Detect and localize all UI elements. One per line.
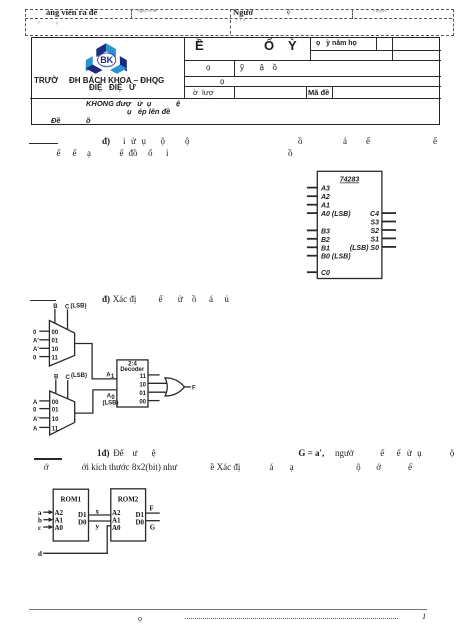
far right sub-row [310, 50, 441, 51]
wire mux M2 output to decoder A0 [75, 390, 117, 413]
svg-text:F: F [149, 505, 153, 513]
svg-text:B: B [53, 304, 58, 310]
ROM1 pin A2 input a [38, 509, 64, 517]
mux M2 input 0 -> 01 [33, 408, 59, 414]
decoder output 10 wire to OR [139, 382, 166, 388]
adder U1 74283 body [317, 171, 382, 278]
BK logo [84, 39, 131, 76]
decoder U2 2:4 body [117, 360, 148, 407]
ROM2 pin A0 [112, 524, 121, 532]
pin A2 [307, 194, 330, 201]
mux M2 select B [54, 375, 59, 394]
svg-text:C: C [66, 375, 71, 381]
svg-text:Decoder: Decoder [120, 367, 145, 373]
svg-text:A3: A3 [320, 186, 330, 193]
svg-text:(LSB): (LSB) [103, 401, 119, 407]
svg-text:A': A' [33, 347, 39, 353]
mux M2 input A' -> 10 [33, 417, 59, 423]
svg-text:10: 10 [139, 382, 146, 388]
row4 [193, 88, 214, 97]
wire output F [146, 505, 160, 514]
ROM1 pin A1 input b [38, 517, 64, 525]
svg-text:A': A' [33, 417, 39, 423]
svg-text:00: 00 [139, 400, 146, 406]
svg-text:x: x [96, 508, 100, 516]
pin A3 [307, 186, 330, 193]
row4 verticals [234, 86, 235, 98]
left cell text [34, 76, 58, 85]
mux M1 input A' -> 10 [33, 347, 59, 353]
svg-text:C0: C0 [321, 270, 330, 277]
ROM1 pin D1 [78, 511, 87, 519]
svg-text:B2: B2 [321, 237, 330, 244]
ROM1 pin A0 input c [38, 524, 64, 532]
KHONG row [86, 99, 151, 108]
mux M1 select C (LSB) [65, 304, 87, 330]
svg-text:10: 10 [52, 347, 59, 353]
pin C4 [370, 211, 396, 218]
mux M1 input 0 -> 00 [33, 330, 59, 336]
svg-text:D0: D0 [135, 519, 144, 527]
wire OR output [185, 386, 191, 388]
ROM2 pin A2 [112, 509, 121, 517]
rom ROM2 title [118, 495, 139, 503]
mux M1 input A' -> 01 [33, 339, 59, 345]
value label 74283 [340, 177, 360, 184]
mux M1 input 0 -> 11 [33, 356, 59, 362]
row2 [206, 63, 210, 72]
svg-text:G: G [150, 524, 156, 532]
svg-text:74283: 74283 [340, 177, 360, 184]
svg-text:A: A [33, 426, 38, 432]
svg-text:01: 01 [52, 408, 59, 414]
svg-text:01: 01 [139, 391, 146, 397]
svg-text:00: 00 [52, 330, 59, 336]
ROM2 pin D1 [135, 511, 144, 519]
mux M2 select C (LSB) [66, 373, 88, 399]
decoder output 01 wire to OR [139, 391, 166, 397]
svg-text:F: F [192, 386, 196, 392]
svg-text:A0 (LSB): A0 (LSB) [320, 211, 351, 218]
svg-text:S3: S3 [370, 220, 379, 227]
svg-text:A1: A1 [320, 203, 330, 210]
svg-text:y: y [96, 523, 100, 531]
wire x D1 to ROM2 A2 [89, 508, 111, 516]
mux M2 input A -> 11 [33, 426, 59, 432]
svg-text:(LSB): (LSB) [71, 373, 87, 379]
svg-text:D0: D0 [78, 519, 87, 527]
ROM2 pin A1 [112, 517, 121, 525]
vertical divider logo cell [184, 37, 185, 98]
svg-text:01: 01 [52, 339, 59, 345]
pin S3 [370, 220, 396, 227]
wire y D0 to ROM2 A1 [89, 521, 111, 531]
svg-text:c: c [38, 524, 41, 532]
pin S2 [370, 228, 396, 235]
pin B3 [307, 228, 330, 235]
pin A1 [307, 203, 330, 210]
svg-text:11: 11 [52, 426, 59, 432]
decoder output 11 [140, 374, 160, 380]
row3 [220, 77, 224, 86]
pin B0 (LSB) [307, 254, 351, 261]
pin C0 [307, 270, 330, 277]
decoder output 00 [139, 400, 159, 406]
ROM2 pin D0 [135, 519, 144, 527]
svg-text:A0: A0 [112, 524, 121, 532]
pin B1 [307, 245, 330, 252]
rom ROM1 title [60, 495, 81, 503]
ROM1 pin D0 [78, 519, 87, 527]
svg-text:A2: A2 [320, 194, 330, 201]
mux M2 (bottom 4:1) body [50, 391, 75, 435]
pin S0 (LSB) [350, 245, 396, 252]
svg-text:A': A' [33, 339, 39, 345]
svg-text:B0 (LSB): B0 (LSB) [321, 254, 351, 261]
row2 vertical [234, 60, 235, 76]
pin B2 [307, 237, 330, 244]
mux M1 select B [53, 304, 58, 323]
svg-text:B: B [54, 375, 59, 381]
or-gate G1 [165, 378, 185, 396]
right section row lines [184, 60, 442, 61]
svg-text:0: 0 [33, 408, 37, 414]
svg-text:A0: A0 [55, 524, 64, 532]
header title glyphs [195, 38, 204, 53]
far right top cell [316, 40, 357, 47]
svg-text:11: 11 [52, 356, 59, 362]
svg-text:B1: B1 [321, 245, 330, 252]
svg-text:A: A [33, 400, 38, 406]
svg-text:0: 0 [33, 356, 37, 362]
svg-text:S1: S1 [370, 236, 379, 243]
rom ROM2 body [111, 489, 146, 541]
decoder title [120, 362, 145, 374]
pin S1 [370, 236, 396, 243]
wire mux M1 output to decoder A1 [75, 344, 117, 379]
rom ROM1 body [53, 489, 88, 541]
svg-text:B3: B3 [321, 228, 330, 235]
wire d to ROM2 A0 [38, 526, 111, 558]
node label F [192, 386, 196, 392]
svg-text:C4: C4 [370, 211, 379, 218]
horizontal full line above KHONG [30, 98, 441, 99]
svg-text:d: d [38, 550, 42, 558]
mux M1 (top 4:1) body [49, 321, 74, 367]
svg-text:S2: S2 [370, 228, 379, 235]
node label A1 [106, 373, 115, 381]
svg-text:0: 0 [33, 330, 37, 336]
svg-text:10: 10 [52, 417, 59, 423]
pin A0 (LSB) [307, 211, 351, 218]
svg-text:ROM1: ROM1 [60, 495, 81, 503]
svg-text:11: 11 [140, 374, 147, 380]
svg-text:00: 00 [52, 400, 59, 406]
node label A0 (LSB) [103, 394, 119, 407]
mux M2 input A -> 00 [33, 400, 59, 406]
wire output G [146, 521, 160, 532]
svg-text:(LSB) S0: (LSB) S0 [350, 245, 379, 252]
svg-text:ROM2: ROM2 [118, 495, 139, 503]
svg-text:(LSB): (LSB) [71, 304, 87, 310]
